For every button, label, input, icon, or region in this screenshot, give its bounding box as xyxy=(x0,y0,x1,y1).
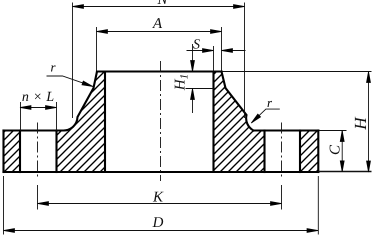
arrow S left xyxy=(203,49,214,53)
left bolt hole right wall xyxy=(55,131,57,173)
label H1 xyxy=(175,75,188,90)
plate right edge xyxy=(317,131,319,173)
centerline pipe axis xyxy=(160,61,162,181)
extension nxL right xyxy=(56,102,58,131)
label r right xyxy=(267,101,272,107)
centerline left bolt xyxy=(37,123,39,179)
arrow A right xyxy=(211,30,222,34)
dimension A line xyxy=(97,31,222,33)
hatch right rim section xyxy=(300,131,318,173)
plate top left xyxy=(4,129,64,131)
left bolt hole left wall xyxy=(19,131,21,173)
plate top right xyxy=(254,129,319,131)
label nxL xyxy=(22,92,53,101)
extension N right xyxy=(244,3,246,119)
extension K right xyxy=(281,185,283,210)
bore right wall xyxy=(212,72,214,173)
arrow r right xyxy=(251,114,260,123)
label S xyxy=(193,39,200,48)
label A xyxy=(152,18,162,28)
extension S left xyxy=(213,46,215,72)
label D xyxy=(152,217,163,227)
arrow nxL right xyxy=(46,106,57,110)
dimension nxL line xyxy=(20,107,57,109)
label N xyxy=(157,0,168,4)
bore left wall xyxy=(104,72,106,173)
right bolt hole left wall xyxy=(263,131,265,173)
flange outline group xyxy=(4,72,319,173)
label K xyxy=(153,192,164,202)
right bolt hole right wall xyxy=(299,131,301,173)
arrow N left xyxy=(73,5,84,9)
label H xyxy=(355,117,366,130)
extension N left xyxy=(72,3,74,119)
hatch left rim section xyxy=(4,131,21,173)
dimension D line xyxy=(4,230,319,232)
dimension H line xyxy=(368,72,370,173)
H1 up arrow shaft xyxy=(192,97,194,113)
arrow D left xyxy=(4,229,15,233)
arrow N right xyxy=(234,5,245,9)
plate left edge xyxy=(2,131,4,173)
right neck outline with fillet xyxy=(222,72,254,131)
left neck outline with fillet xyxy=(64,72,98,131)
arrow K right xyxy=(271,202,282,206)
arrow H1 up xyxy=(191,89,195,100)
leader r right xyxy=(252,109,280,123)
leader r left xyxy=(47,76,93,86)
plate bottom xyxy=(4,171,319,173)
extension H top xyxy=(223,71,372,73)
extension H bottom xyxy=(318,171,371,173)
arrow S right xyxy=(222,49,233,53)
dimension N line xyxy=(73,6,245,8)
arrow A left xyxy=(97,30,108,34)
dimension C line xyxy=(341,131,343,172)
centerline right bolt xyxy=(281,123,283,179)
arrow C top xyxy=(340,131,344,142)
label r left xyxy=(51,65,56,71)
extension A right / S right xyxy=(221,27,223,72)
arrow H bottom xyxy=(367,161,371,172)
arrow H top xyxy=(367,72,371,83)
H1 down arrow shaft xyxy=(192,44,194,62)
extension D left xyxy=(3,176,5,235)
extension A left xyxy=(96,27,98,71)
arrow K left xyxy=(38,202,49,206)
arrow H1 down xyxy=(191,61,195,72)
hatch right hub section xyxy=(214,72,265,173)
dimension S left tail xyxy=(187,50,205,52)
arrow r left xyxy=(82,81,93,87)
hatch left hub section xyxy=(57,72,106,173)
extension nxL left xyxy=(20,102,22,131)
dimension K line xyxy=(38,203,282,205)
label C xyxy=(330,145,340,154)
arrow D right xyxy=(307,229,318,233)
arrow nxL left xyxy=(20,106,31,110)
extension C top xyxy=(319,130,347,132)
dimension S right tail xyxy=(222,50,246,52)
H1 feature line xyxy=(186,88,216,90)
extension D right xyxy=(317,176,319,235)
extension K left xyxy=(37,185,39,210)
pipe top face xyxy=(97,70,222,72)
arrow C bottom xyxy=(340,161,344,172)
